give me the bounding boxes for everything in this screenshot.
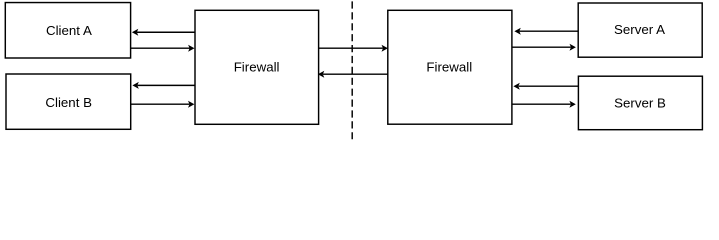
wire Firewall-right to Firewall-left (arrow left) — [318, 71, 388, 78]
box Server B — [578, 76, 702, 130]
box Firewall left U1 — [195, 10, 319, 124]
svg-text:Server A: Server A — [614, 22, 665, 37]
wire Client B to Firewall-left (arrow right) — [131, 101, 195, 108]
svg-text:Server B: Server B — [614, 96, 666, 111]
box Firewall right U2 — [388, 10, 512, 124]
wire Firewall-left to Client A (arrow left) — [132, 29, 195, 36]
svg-text:Client A: Client A — [46, 23, 92, 38]
label Client A — [46, 23, 92, 38]
label Firewall left — [234, 59, 280, 74]
wire Server B to Firewall-right (arrow left) — [513, 83, 578, 90]
wire Firewall-left to Firewall-right (arrow right) — [319, 45, 388, 52]
box Server A — [578, 3, 702, 57]
wire Firewall-right to Server B (arrow right) — [512, 101, 576, 108]
dashed boundary line — [351, 1, 353, 139]
wire Firewall-left to Client B (arrow left) — [132, 82, 195, 89]
svg-text:Client B: Client B — [45, 95, 92, 110]
label Firewall right — [426, 59, 472, 74]
wire Client A to Firewall-left (arrow right) — [131, 45, 195, 52]
label Client B — [45, 95, 92, 110]
svg-text:Firewall: Firewall — [426, 59, 472, 74]
label Server A — [614, 22, 665, 37]
wire Server A to Firewall-right (arrow left) — [514, 28, 578, 35]
box Client B — [6, 74, 131, 129]
box Client A — [5, 3, 130, 58]
label Server B — [614, 96, 666, 111]
wire Firewall-right to Server A (arrow right) — [512, 44, 576, 51]
svg-text:Firewall: Firewall — [234, 59, 280, 74]
